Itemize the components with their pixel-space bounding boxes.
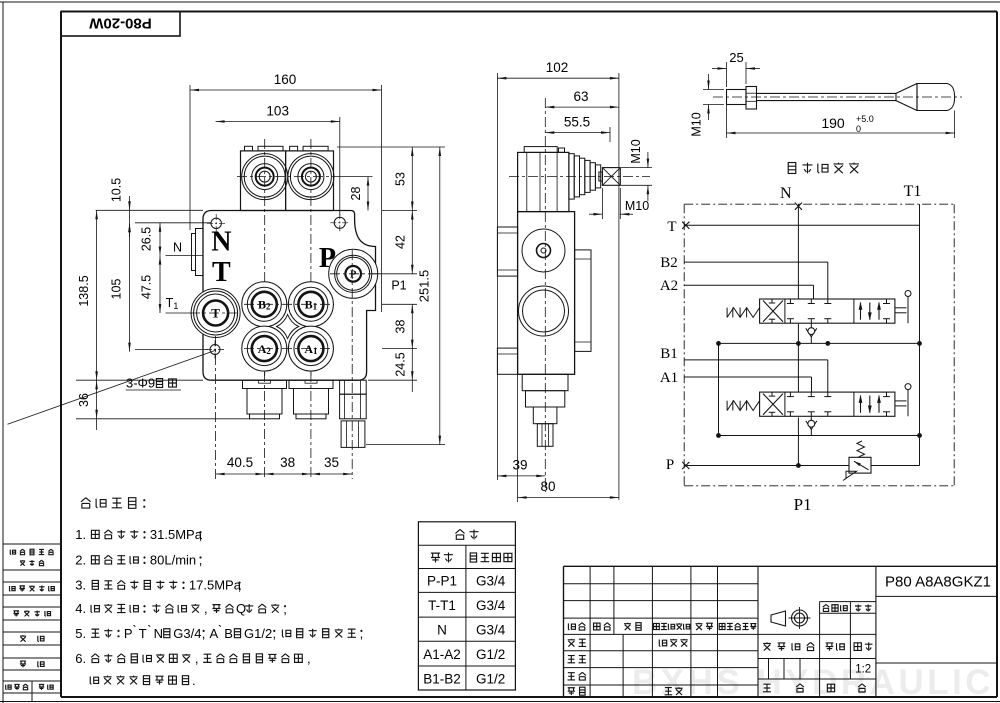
svg-text:P: P — [666, 457, 674, 473]
svg-text:3.: 3. — [75, 578, 86, 593]
svg-text:B1-B2: B1-B2 — [423, 672, 461, 687]
svg-text:25: 25 — [729, 50, 743, 65]
svg-text:39: 39 — [512, 458, 527, 473]
svg-text:B1: B1 — [660, 346, 678, 362]
svg-text:G3/4: G3/4 — [476, 623, 506, 638]
svg-text:G3/4: G3/4 — [476, 574, 506, 589]
svg-text:G1/2: G1/2 — [244, 626, 272, 641]
svg-text:38: 38 — [393, 320, 407, 334]
svg-text:24.5: 24.5 — [393, 352, 407, 376]
svg-text:`: ` — [132, 623, 136, 638]
svg-text:T: T — [667, 219, 676, 235]
svg-text:53: 53 — [393, 172, 407, 186]
svg-text:N: N — [154, 626, 163, 641]
svg-text:31.5MPa: 31.5MPa — [150, 527, 203, 542]
svg-text:A2: A2 — [660, 278, 678, 294]
svg-text:N: N — [173, 241, 182, 255]
svg-text:P80 A8A8GKZ1: P80 A8A8GKZ1 — [885, 574, 991, 591]
svg-text:,: , — [307, 651, 311, 666]
svg-text:160: 160 — [274, 72, 297, 87]
svg-text:Q: Q — [236, 601, 246, 616]
svg-text:N: N — [780, 185, 792, 202]
svg-text:P80-20W: P80-20W — [88, 15, 151, 32]
svg-text:B: B — [224, 626, 233, 641]
svg-text:47.5: 47.5 — [140, 275, 154, 299]
svg-text:P: P — [350, 269, 356, 280]
svg-text:P1: P1 — [391, 279, 406, 293]
svg-text:N: N — [211, 227, 231, 258]
svg-text:M10: M10 — [629, 139, 643, 163]
svg-text:10.5: 10.5 — [110, 178, 124, 202]
svg-text:`: ` — [147, 623, 151, 638]
svg-text:251.5: 251.5 — [417, 270, 432, 303]
svg-text:,: , — [195, 651, 199, 666]
svg-text:M10: M10 — [625, 199, 649, 213]
svg-text:103: 103 — [266, 104, 289, 119]
svg-text:P-P1: P-P1 — [427, 574, 457, 589]
svg-text:,: , — [283, 601, 287, 616]
svg-text:26.5: 26.5 — [140, 227, 154, 251]
svg-text:,: , — [202, 626, 206, 641]
svg-text:55.5: 55.5 — [564, 115, 590, 130]
svg-text:42: 42 — [393, 235, 407, 249]
svg-text:6.: 6. — [75, 651, 86, 666]
svg-text:,: , — [238, 578, 242, 593]
svg-text:T-T1: T-T1 — [428, 598, 456, 613]
svg-text:A1: A1 — [660, 370, 678, 386]
svg-text:,: , — [199, 553, 203, 568]
svg-text:1.: 1. — [75, 527, 86, 542]
svg-text:,: , — [360, 626, 364, 641]
svg-text:63: 63 — [573, 89, 588, 104]
svg-text:,: , — [272, 626, 276, 641]
svg-text:G1/2: G1/2 — [476, 647, 505, 662]
svg-text:80L/min: 80L/min — [150, 553, 196, 568]
svg-text:P: P — [319, 243, 336, 274]
svg-text:4.: 4. — [75, 601, 86, 616]
svg-text:M10: M10 — [690, 112, 704, 136]
svg-text:+5.0: +5.0 — [856, 114, 874, 124]
svg-text:,: , — [199, 527, 203, 542]
svg-text:P: P — [124, 626, 133, 641]
svg-text:17.5MPa: 17.5MPa — [189, 578, 242, 593]
svg-text:5.: 5. — [75, 626, 86, 641]
svg-text:80: 80 — [540, 479, 555, 494]
svg-text:38: 38 — [280, 455, 295, 470]
svg-text:P1: P1 — [794, 495, 812, 514]
svg-text:G3/4: G3/4 — [476, 598, 506, 613]
svg-text:T1: T1 — [904, 183, 922, 200]
svg-text:N: N — [437, 623, 447, 638]
svg-text:138.5: 138.5 — [77, 275, 91, 306]
svg-text:T: T — [212, 257, 231, 288]
svg-text:G1/2: G1/2 — [476, 672, 505, 687]
svg-text:G3/4: G3/4 — [173, 626, 201, 641]
svg-text:35: 35 — [324, 455, 339, 470]
svg-text:B2: B2 — [660, 255, 678, 271]
svg-text:3-Φ9: 3-Φ9 — [126, 376, 155, 391]
svg-text:T: T — [139, 626, 147, 641]
svg-text:28: 28 — [349, 187, 363, 201]
svg-text:.: . — [192, 673, 196, 688]
svg-text:`: ` — [218, 623, 222, 638]
svg-text:105: 105 — [110, 279, 124, 300]
svg-text:190: 190 — [821, 115, 845, 131]
svg-text:A1-A2: A1-A2 — [423, 647, 461, 662]
svg-text:2.: 2. — [75, 553, 86, 568]
svg-text:102: 102 — [546, 60, 569, 75]
svg-text:,: , — [204, 601, 208, 616]
svg-text:1:2: 1:2 — [855, 664, 871, 676]
svg-text:40.5: 40.5 — [227, 455, 253, 470]
svg-text:0: 0 — [856, 124, 861, 134]
